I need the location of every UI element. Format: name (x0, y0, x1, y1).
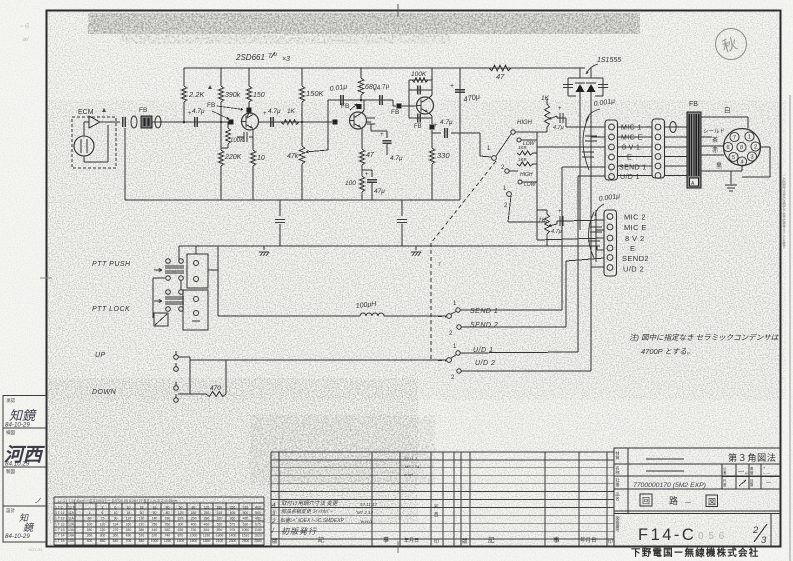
svg-text:版: 版 (272, 537, 278, 545)
svg-text:210: 210 (139, 522, 145, 526)
svg-text:520: 520 (139, 534, 145, 538)
svg-text:2100: 2100 (216, 539, 224, 543)
svg-text:1K: 1K (287, 108, 296, 115)
svg-text:430: 430 (243, 517, 249, 521)
svg-text:MIC-E: MIC-E (621, 135, 643, 142)
svg-text:FB: FB (391, 109, 399, 116)
svg-text:1: 1 (89, 511, 91, 515)
svg-text:路: 路 (669, 495, 678, 506)
svg-text:150: 150 (253, 92, 265, 99)
svg-text:年月日: 年月日 (580, 536, 597, 544)
svg-text:130: 130 (139, 517, 145, 521)
svg-text:320: 320 (217, 517, 223, 521)
svg-text:注) 図中に指定なき セラミックコンデンサは: 注) 図中に指定なき セラミックコンデンサは (629, 333, 779, 342)
svg-text:50: 50 (153, 511, 157, 515)
svg-text:-: - (89, 506, 90, 510)
svg-text:F14-C: F14-C (638, 526, 696, 544)
svg-text:UP: UP (95, 352, 106, 359)
svg-text:700: 700 (126, 539, 132, 543)
svg-text:120: 120 (178, 511, 184, 515)
svg-text:版: 版 (462, 537, 468, 545)
svg-text:4.7μ: 4.7μ (192, 108, 205, 115)
svg-text:ノ: ノ (34, 497, 41, 505)
svg-text:4.7μ: 4.7μ (553, 125, 564, 131)
svg-text:260: 260 (165, 522, 171, 526)
svg-text:100: 100 (345, 180, 356, 187)
svg-text:—: — (738, 469, 744, 475)
svg-text:2: 2 (102, 506, 104, 510)
svg-text:11A: 11A (68, 511, 75, 515)
svg-text:'M7.2.14: 'M7.2.14 (404, 464, 420, 469)
svg-text:1620: 1620 (254, 534, 262, 538)
svg-text:110: 110 (126, 517, 132, 521)
svg-text:440: 440 (152, 528, 158, 532)
svg-text:2300: 2300 (229, 539, 237, 543)
svg-text:E: E (630, 244, 635, 253)
svg-text:740: 740 (165, 534, 171, 538)
svg-text:575: 575 (230, 522, 236, 526)
svg-text:870: 870 (178, 534, 184, 538)
svg-text:記: 記 (318, 536, 324, 544)
svg-text:+: + (365, 172, 369, 178)
svg-text:630: 630 (243, 522, 249, 526)
svg-text:90: 90 (114, 517, 118, 521)
svg-text:3: 3 (750, 155, 753, 161)
svg-text:(ノ 1 1 7 1まյの±か一 生な725の七ー ま-57: (ノ 1 1 7 1まյの±か一 生な725の七ー ま-5725 JIS B 2… (58, 498, 178, 503)
svg-text:1 T 13: 1 T 13 (55, 528, 65, 532)
svg-text:1K: 1K (538, 217, 547, 224)
svg-text:製図: 製図 (6, 468, 15, 475)
svg-text:U/D 2: U/D 2 (623, 265, 644, 274)
svg-text:430: 430 (126, 534, 132, 538)
svg-text:事: 事 (383, 536, 389, 544)
svg-text:4.7μ: 4.7μ (551, 229, 562, 235)
svg-text:520: 520 (217, 522, 223, 526)
svg-text:540: 540 (113, 539, 119, 543)
svg-text:400: 400 (87, 539, 93, 543)
svg-text:U/D 2: U/D 2 (475, 360, 495, 367)
svg-text:8 V 1: 8 V 1 (622, 145, 640, 152)
svg-text:設計: 設計 (6, 507, 15, 514)
svg-text:w.wd: w.wd (404, 472, 414, 477)
svg-text:330: 330 (126, 528, 132, 532)
svg-text:1: 1 (748, 135, 751, 141)
svg-text:8 V 2: 8 V 2 (625, 234, 645, 243)
svg-text:15A: 15A (68, 539, 75, 543)
svg-text:社番: 社番 (615, 477, 621, 488)
svg-text:+: + (263, 111, 267, 117)
svg-text:×3: ×3 (282, 56, 290, 63)
svg-text:57.11.17: 57.11.17 (360, 502, 378, 507)
svg-text:材質: 材質 (616, 450, 621, 461)
svg-text:460: 460 (204, 522, 210, 526)
svg-text:180: 180 (191, 511, 197, 515)
svg-text:HIGH: HIGH (517, 120, 533, 126)
svg-text:250: 250 (204, 511, 210, 515)
svg-text:初版発行: 初版発行 (281, 527, 317, 536)
svg-text:8: 8 (740, 145, 743, 151)
svg-text:名称: 名称 (616, 465, 621, 476)
svg-text:1ΚR: 1ΚR (518, 145, 528, 150)
svg-text:1 T 11: 1 T 11 (55, 511, 64, 515)
svg-text:14A: 14A (68, 534, 75, 538)
svg-text:年月日: 年月日 (404, 537, 419, 544)
svg-text:50: 50 (179, 506, 183, 510)
svg-text:検図: 検図 (6, 429, 15, 436)
svg-text:差: 差 (723, 470, 727, 475)
svg-text:12A: 12A (68, 522, 75, 526)
svg-text:図: 図 (708, 498, 716, 507)
svg-text:1 T 12: 1 T 12 (55, 522, 65, 526)
svg-text:12 F: 12 F (68, 506, 75, 510)
svg-text:360: 360 (113, 534, 119, 538)
svg-text:57.11.7: 57.11.7 (404, 456, 418, 461)
svg-text:160: 160 (126, 522, 132, 526)
svg-text:4.7μ: 4.7μ (440, 119, 453, 126)
svg-text:1290: 1290 (164, 539, 172, 543)
svg-text:品名: 品名 (616, 492, 621, 502)
svg-text:1400: 1400 (229, 534, 237, 538)
svg-text:茶: 茶 (712, 136, 718, 144)
svg-text:400: 400 (255, 506, 261, 510)
svg-text:250: 250 (152, 522, 158, 526)
svg-text:47k: 47k (287, 153, 299, 160)
svg-text:+: + (558, 209, 562, 215)
svg-text:HIGH: HIGH (520, 172, 533, 178)
svg-text:4.7μ: 4.7μ (268, 108, 281, 115)
svg-text:度: 度 (723, 482, 727, 487)
svg-text:2500: 2500 (242, 539, 250, 543)
svg-text:190: 190 (165, 517, 171, 521)
svg-text:—: — (685, 500, 691, 506)
svg-text:2: 2 (752, 525, 759, 536)
svg-text:180: 180 (217, 506, 223, 510)
svg-text:1671-51: 1671-51 (28, 547, 43, 552)
svg-text:18: 18 (153, 506, 157, 510)
svg-text:7: 7 (733, 135, 736, 141)
svg-text:部品名稱変更 ｽｲｯﾁｶﾊﾞｰ: 部品名稱変更 ｽｲｯﾁｶﾊﾞｰ (281, 508, 333, 515)
svg-text:100K: 100K (230, 138, 245, 144)
svg-text:DOWN: DOWN (92, 389, 117, 396)
svg-text:シールド: シールド (703, 129, 725, 135)
svg-text:300: 300 (100, 534, 106, 538)
svg-text:ECM: ECM (78, 109, 94, 116)
svg-text:315: 315 (243, 506, 249, 510)
svg-text:360: 360 (230, 517, 236, 521)
svg-text:250: 250 (191, 517, 197, 521)
svg-text:知: 知 (19, 513, 29, 523)
svg-text:890: 890 (217, 528, 223, 532)
svg-text:1 T 15: 1 T 15 (55, 539, 65, 543)
svg-text:下野電国ー無線機株式会社: 下野電国ー無線機株式会社 (631, 547, 759, 559)
svg-text:80: 80 (192, 506, 196, 510)
svg-text:印: 印 (608, 538, 613, 545)
svg-text:84-10-29: 84-10-29 (5, 533, 30, 540)
svg-text:事: 事 (553, 535, 560, 544)
svg-text:150K: 150K (306, 89, 325, 98)
svg-text:100K: 100K (411, 71, 427, 78)
svg-text:1 T 11: 1 T 11 (55, 517, 64, 521)
svg-text:'w.w.d: 'w.w.d (360, 519, 372, 524)
svg-text:11A-: 11A- (68, 517, 75, 521)
svg-text:+: + (450, 83, 454, 90)
svg-text:4.7μ: 4.7μ (390, 155, 403, 162)
svg-text:620: 620 (152, 534, 158, 538)
svg-text:120: 120 (100, 522, 106, 526)
svg-text:6: 6 (115, 506, 117, 510)
svg-text:47: 47 (366, 152, 375, 159)
svg-text:1ΚR: 1ΚR (518, 157, 528, 162)
svg-text:記: 記 (488, 535, 495, 544)
svg-text:1600: 1600 (190, 539, 198, 543)
svg-text:1000: 1000 (190, 534, 198, 538)
svg-text:LOW: LOW (524, 182, 537, 188)
svg-text:度: 度 (750, 470, 754, 475)
svg-text:220K: 220K (224, 154, 242, 161)
svg-text:承認: 承認 (6, 397, 15, 404)
svg-text:3: 3 (761, 535, 767, 546)
svg-text:300: 300 (178, 522, 184, 526)
svg-text:~ら: ~ら (20, 23, 30, 30)
svg-text:E: E (627, 155, 632, 162)
svg-text:180: 180 (87, 528, 93, 532)
svg-text:0 5 6: 0 5 6 (698, 531, 725, 542)
svg-text:+: + (434, 123, 438, 129)
svg-text:1 T 2: 1 T 2 (55, 506, 63, 510)
svg-text:975: 975 (230, 528, 236, 532)
svg-text:2: 2 (271, 519, 276, 525)
svg-text:1060: 1060 (242, 528, 250, 532)
svg-text:'M7.2.14: 'M7.2.14 (356, 510, 374, 515)
svg-text:2580: 2580 (254, 539, 262, 543)
svg-text:470: 470 (210, 385, 221, 392)
svg-text:480: 480 (100, 539, 106, 543)
svg-text:1510: 1510 (242, 534, 250, 538)
svg-text:私審ﾚﾍﾟﾙDEXﾉｰｼC.SMDEXP: 私審ﾚﾍﾟﾙDEXﾉｰｼC.SMDEXP (280, 517, 345, 524)
svg-text:1150: 1150 (203, 534, 210, 538)
svg-text:84-10-29: 84-10-29 (5, 422, 30, 429)
svg-text:7: 7 (438, 262, 441, 268)
svg-text:134: 134 (113, 522, 119, 526)
svg-text:730: 730 (191, 528, 197, 532)
svg-text:480: 480 (255, 517, 261, 521)
svg-text:SEND 2: SEND 2 (470, 322, 498, 329)
svg-text:印: 印 (434, 538, 439, 545)
svg-text:500: 500 (243, 511, 249, 515)
svg-text:390k: 390k (225, 92, 241, 99)
svg-text:220: 220 (100, 528, 106, 532)
svg-text:630: 630 (178, 528, 184, 532)
svg-text:100: 100 (87, 522, 93, 526)
svg-text:1K: 1K (541, 95, 550, 102)
svg-text:540: 540 (165, 528, 171, 532)
svg-text:FB: FB (689, 101, 698, 108)
svg-text:白: 白 (724, 105, 731, 114)
svg-text:回: 回 (642, 497, 650, 506)
svg-text:1300: 1300 (216, 534, 224, 538)
svg-text:75: 75 (101, 517, 105, 521)
svg-text:+: + (380, 132, 384, 138)
svg-text:SEND2: SEND2 (622, 254, 649, 263)
svg-text:第３角図法: 第３角図法 (728, 452, 776, 463)
svg-text:400: 400 (230, 511, 236, 515)
svg-text:u: u (274, 52, 277, 58)
svg-text:+: + (558, 106, 562, 112)
svg-text:知: 知 (434, 503, 439, 510)
svg-text:386: 386 (139, 528, 145, 532)
svg-text:4: 4 (740, 160, 743, 166)
svg-text:675: 675 (255, 522, 261, 526)
svg-text:80: 80 (166, 511, 170, 515)
svg-text:数: 数 (750, 482, 754, 487)
svg-text:400: 400 (191, 522, 197, 526)
svg-text:30: 30 (166, 506, 170, 510)
svg-text:60: 60 (88, 517, 92, 521)
svg-text:220: 220 (178, 517, 184, 521)
svg-text:—: — (766, 480, 771, 486)
svg-text:PTT PUSH: PTT PUSH (92, 261, 131, 268)
svg-text:– —: – — (763, 470, 770, 475)
svg-text:この図面は当社の承認なく複写転載することを禁ず: この図面は当社の承認なく複写転載することを禁ず (781, 174, 785, 249)
svg-text:4700P とする。: 4700P とする。 (641, 347, 694, 356)
svg-text:10: 10 (257, 155, 265, 162)
svg-text:取付け用鋼穴寸法 変更: 取付け用鋼穴寸法 変更 (281, 500, 339, 507)
svg-text:1850: 1850 (203, 539, 211, 543)
svg-text:10: 10 (114, 511, 118, 515)
svg-text:黒: 黒 (716, 163, 722, 170)
svg-text:18: 18 (140, 506, 144, 510)
svg-text:MIC 2: MIC 2 (624, 213, 646, 222)
svg-text:1000: 1000 (151, 539, 159, 543)
svg-text:330: 330 (437, 151, 450, 160)
svg-text:1 T 14: 1 T 14 (55, 534, 65, 538)
svg-text:図面番号: 図面番号 (616, 516, 621, 533)
svg-text:2: 2 (754, 145, 757, 151)
svg-text:FB: FB (139, 107, 147, 114)
svg-text:120: 120 (204, 506, 210, 510)
svg-text:7700000170 (5M2 EXP): 7700000170 (5M2 EXP) (633, 482, 706, 489)
svg-text:6: 6 (102, 511, 104, 515)
svg-text:1150: 1150 (254, 528, 261, 532)
svg-text:'84.10.29: '84.10.29 (4, 461, 30, 468)
svg-text:18: 18 (127, 511, 131, 515)
svg-text:SEND 1: SEND 1 (470, 308, 498, 315)
svg-text:MIC 1: MIC 1 (621, 125, 642, 132)
svg-text:1S1555: 1S1555 (597, 57, 621, 64)
svg-text:47μ: 47μ (374, 188, 385, 195)
svg-text:FB: FB (341, 103, 349, 110)
svg-text:810: 810 (204, 528, 210, 532)
svg-text:6: 6 (726, 145, 729, 151)
svg-text:FB: FB (207, 102, 215, 109)
svg-text:PTT LOCK: PTT LOCK (92, 306, 130, 313)
svg-text:2SD661: 2SD661 (235, 53, 265, 62)
svg-text:250: 250 (230, 506, 236, 510)
svg-text:13A: 13A (68, 528, 75, 532)
svg-text:315: 315 (217, 511, 223, 515)
svg-text:10: 10 (127, 506, 131, 510)
svg-text:赤: 赤 (712, 147, 718, 154)
svg-text:5: 5 (732, 155, 735, 161)
svg-text:1400: 1400 (177, 539, 185, 543)
svg-text:FB: FB (414, 124, 422, 130)
svg-text:290: 290 (204, 517, 210, 521)
svg-text:840: 840 (139, 539, 145, 543)
svg-text:MIC E: MIC E (624, 223, 647, 232)
svg-text:560: 560 (255, 511, 261, 515)
svg-text:140: 140 (152, 517, 158, 521)
svg-text:2.2K: 2.2K (188, 90, 205, 99)
svg-text:270: 270 (113, 528, 119, 532)
svg-text:260: 260 (87, 534, 93, 538)
svg-text:30: 30 (140, 511, 144, 515)
svg-text:47: 47 (496, 72, 505, 81)
